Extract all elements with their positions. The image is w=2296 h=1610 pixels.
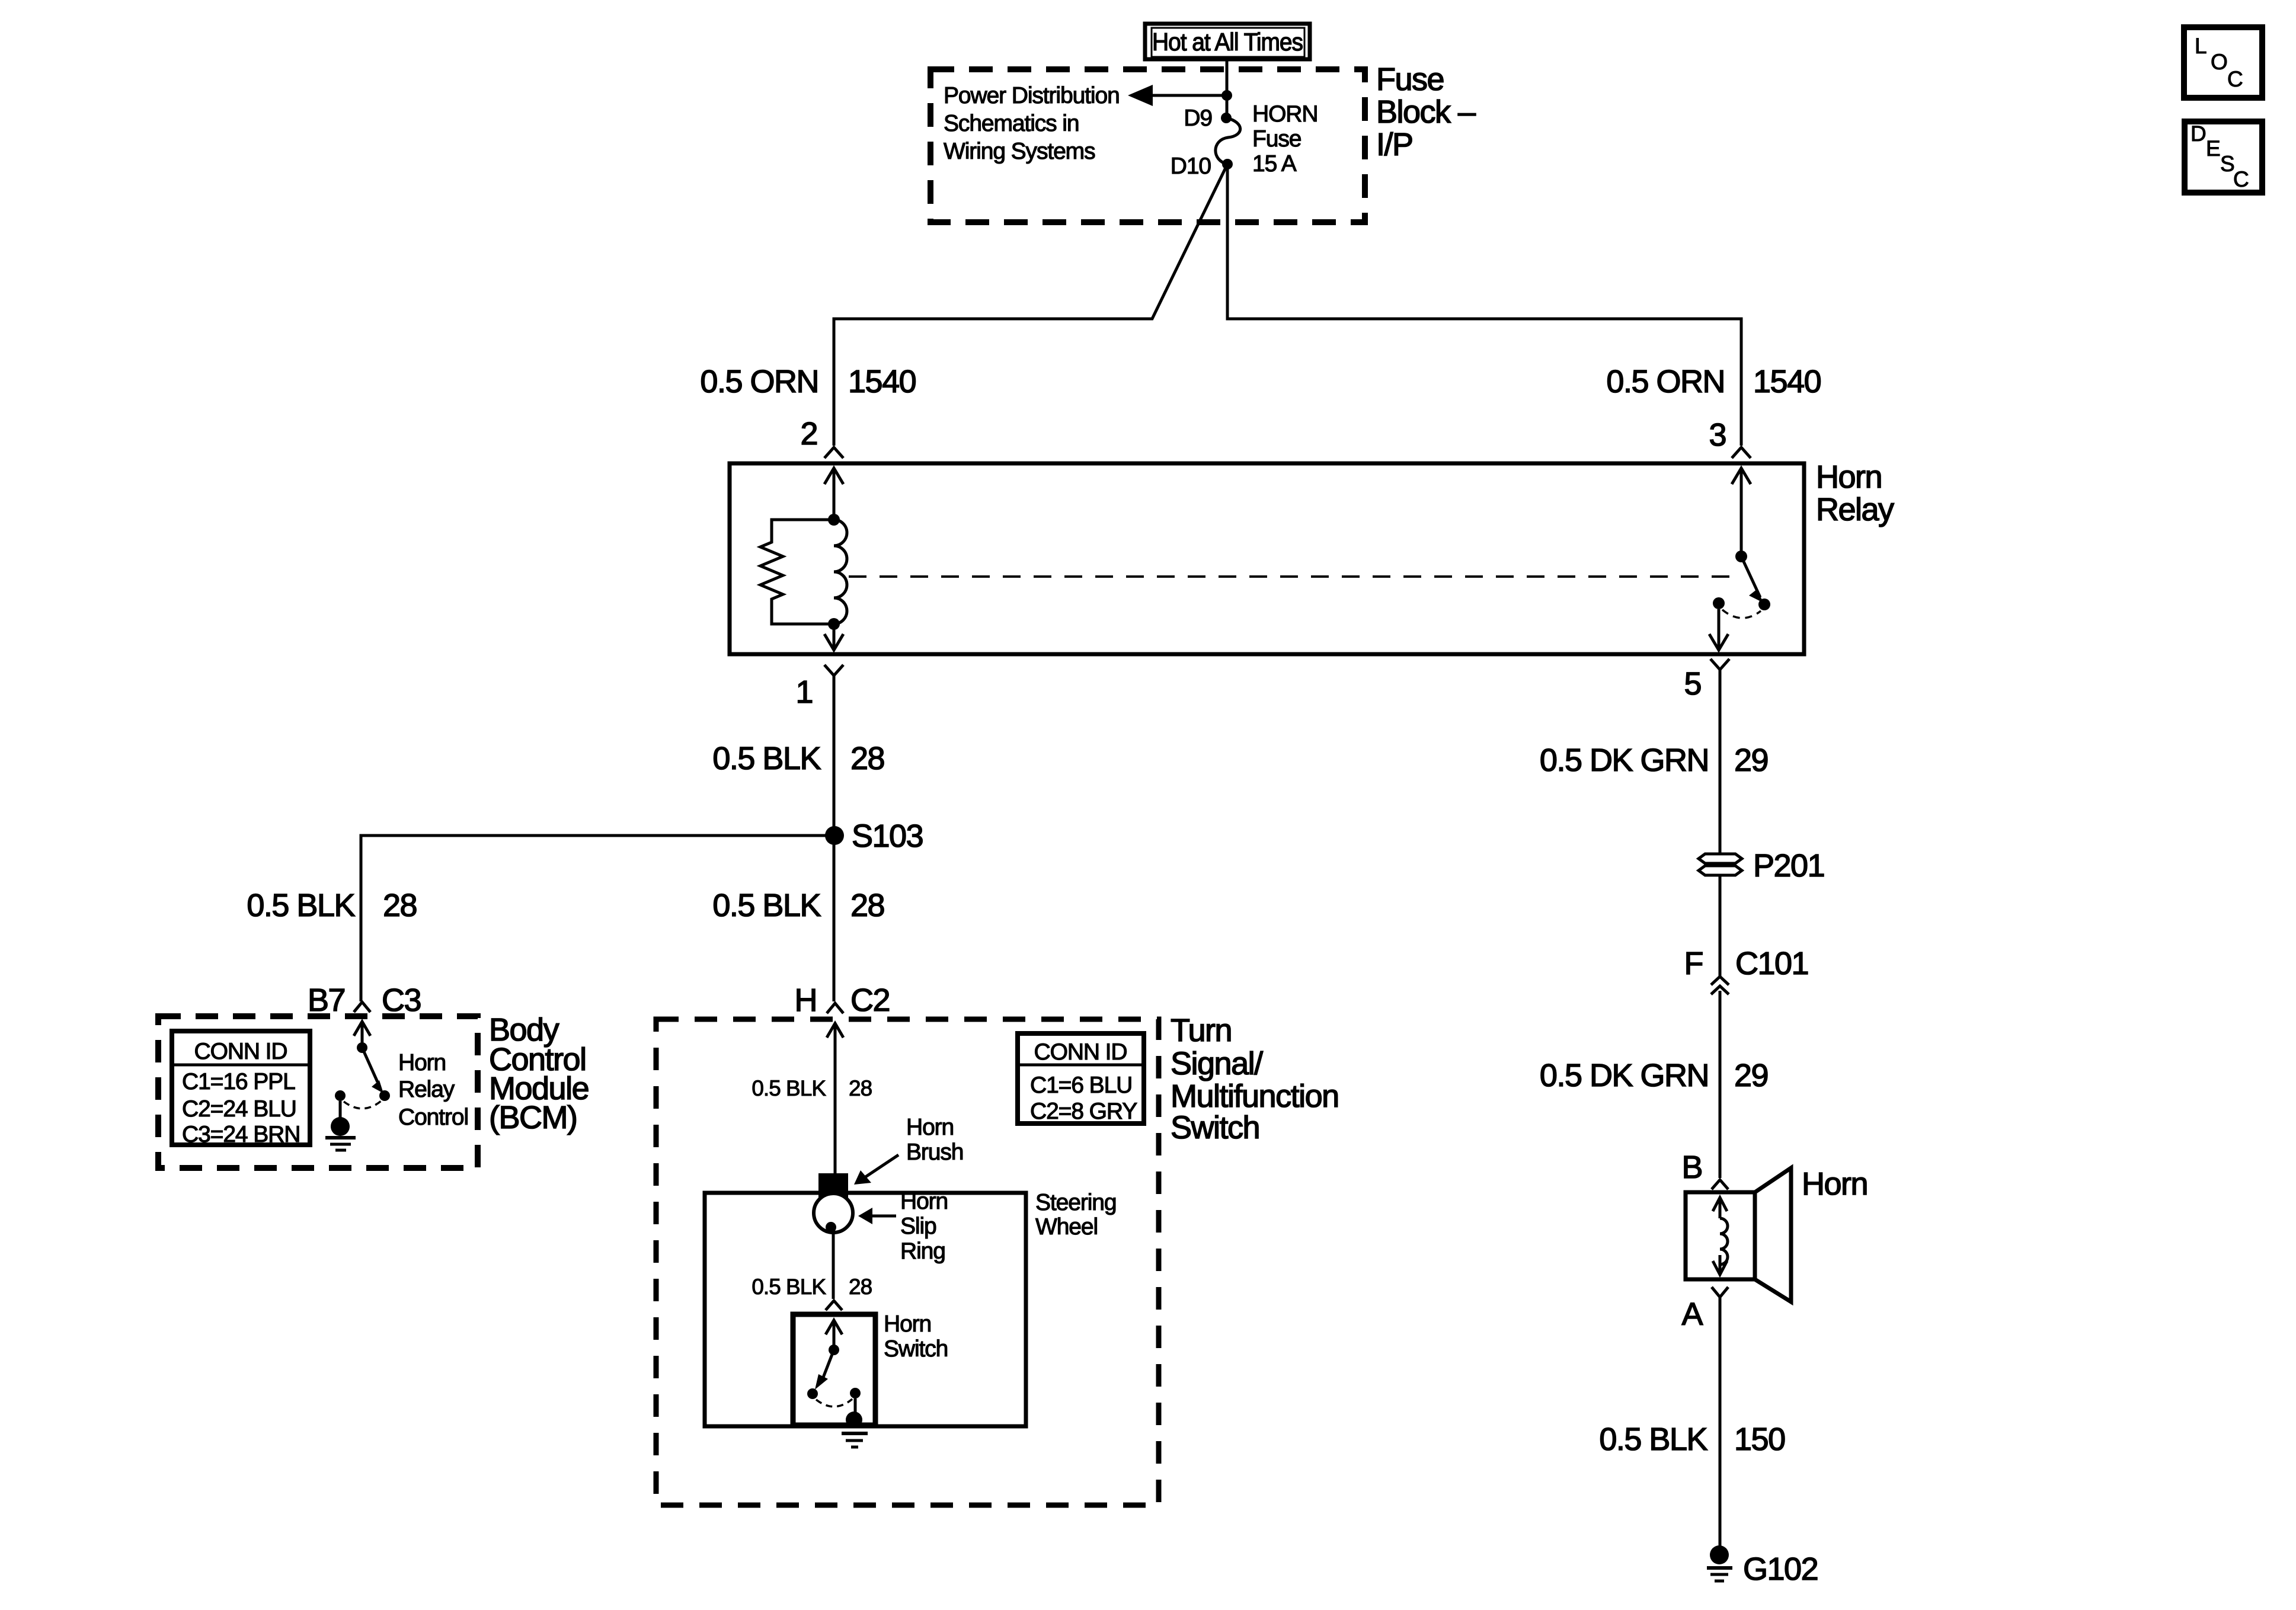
pin 2 terminal [824, 447, 843, 458]
wire hot box to D9 [1226, 59, 1229, 118]
relay pin 5 internal arrow [1709, 609, 1728, 650]
fuse element (HORN fuse) [1216, 118, 1240, 164]
svg-text:29: 29 [1734, 742, 1768, 778]
svg-text:Fuse: Fuse [1376, 62, 1444, 97]
relay switch dashed linkage arc [1722, 610, 1761, 618]
svg-text:Relay: Relay [398, 1077, 455, 1102]
0.5 BLK 28 label (upper, in switch) [752, 1076, 872, 1100]
wire pin 1 to H C2 [833, 676, 836, 1001]
wire P201 to C101 [1719, 875, 1722, 977]
svg-text:Ring: Ring [900, 1238, 945, 1264]
svg-text:D10: D10 [1171, 153, 1211, 179]
horn speaker flare [1755, 1168, 1791, 1302]
svg-text:1540: 1540 [1753, 364, 1821, 399]
horn switch entry terminal [826, 1301, 842, 1310]
svg-text:Switch: Switch [884, 1336, 948, 1362]
0.5 ORN 1540 label (left) [700, 364, 916, 399]
svg-text:S103: S103 [852, 818, 923, 854]
svg-text:0.5 BLK: 0.5 BLK [712, 741, 821, 776]
relay coil [834, 520, 847, 624]
0.5 BLK 28 label (lower, in switch) [752, 1275, 872, 1299]
pin 3 terminal [1732, 447, 1751, 458]
svg-text:Block –: Block – [1376, 94, 1476, 130]
BCM switch dashed arc [344, 1101, 381, 1109]
svg-text:Horn: Horn [906, 1115, 954, 1140]
slip ring pointer arrow [858, 1208, 896, 1224]
svg-text:B7: B7 [308, 982, 345, 1018]
Fuse Block I/P label [1376, 62, 1476, 162]
svg-text:28: 28 [383, 888, 417, 923]
svg-text:I/P: I/P [1376, 127, 1413, 162]
H terminal [827, 1003, 843, 1013]
svg-text:28: 28 [850, 888, 884, 923]
horn switch entry arrow [826, 1320, 842, 1350]
svg-text:28: 28 [849, 1076, 872, 1100]
relay pin 1 internal arrow [824, 624, 843, 650]
pin 1 terminal [824, 665, 843, 676]
ground G102 [1707, 1545, 1732, 1581]
svg-text:O: O [2211, 50, 2227, 74]
C101 in-line connector [1711, 977, 1729, 994]
svg-text:28: 28 [849, 1275, 872, 1299]
relay resistor [760, 520, 834, 624]
relay switch arm contact node [1758, 598, 1770, 610]
svg-text:HORN: HORN [1252, 101, 1318, 127]
svg-text:D: D [2191, 121, 2206, 146]
wire D10 to relay pin 2 [834, 164, 1227, 446]
svg-text:Switch: Switch [1171, 1110, 1259, 1145]
horn switch dashed arc [816, 1399, 852, 1407]
F C101 pin labels [1684, 946, 1809, 981]
svg-text:Slip: Slip [900, 1214, 936, 1239]
svg-text:0.5 DK GRN: 0.5 DK GRN [1540, 1058, 1709, 1093]
svg-text:Power Distribution: Power Distribution [944, 83, 1120, 108]
svg-text:0.5 ORN: 0.5 ORN [700, 364, 818, 399]
svg-text:15 A: 15 A [1252, 151, 1297, 177]
horn switch ground stem [854, 1398, 857, 1413]
svg-text:(BCM): (BCM) [489, 1100, 577, 1135]
Horn Brush label [906, 1115, 963, 1165]
svg-text:Signal/: Signal/ [1171, 1046, 1263, 1081]
svg-text:Horn: Horn [1802, 1166, 1868, 1202]
wire C101 to horn B [1719, 991, 1722, 1178]
0.5 BLK 28 label (branch) [247, 888, 417, 923]
svg-text:150: 150 [1734, 1422, 1785, 1457]
svg-text:Wiring Systems: Wiring Systems [944, 139, 1095, 164]
svg-text:C: C [2233, 167, 2249, 191]
Turn Signal Multifunction Switch label [1171, 1013, 1339, 1145]
H C2 pin labels [795, 982, 890, 1018]
relay switch fixed contact node [1713, 597, 1725, 609]
relay actuation dashed line [849, 575, 1731, 578]
svg-text:2: 2 [800, 416, 817, 452]
BCM switch fixed contact node [335, 1090, 346, 1101]
CONN ID table (BCM) [172, 1031, 310, 1147]
node: hot feed junction [1221, 90, 1232, 101]
wire D10 to relay pin 3 [1227, 164, 1741, 446]
splice S103 [825, 826, 844, 845]
horn switch ground [842, 1411, 868, 1447]
relay coil bottom node [828, 618, 840, 630]
DESC box [2185, 121, 2262, 193]
relay pin 3 internal arrow [1732, 468, 1751, 556]
svg-text:0.5 BLK: 0.5 BLK [752, 1076, 826, 1100]
svg-text:Wheel: Wheel [1035, 1214, 1098, 1240]
svg-text:P201: P201 [1753, 848, 1824, 884]
svg-text:Horn: Horn [900, 1189, 948, 1214]
Horn Relay Control label [398, 1050, 468, 1130]
svg-text:C3=24 BRN: C3=24 BRN [182, 1122, 300, 1147]
0.5 BLK 28 label (to H) [712, 888, 884, 923]
svg-text:G102: G102 [1743, 1551, 1818, 1587]
svg-text:C2=8 GRY: C2=8 GRY [1030, 1099, 1137, 1124]
svg-text:Hot at All Times: Hot at All Times [1152, 28, 1303, 56]
svg-text:Relay: Relay [1816, 492, 1894, 527]
steering wheel box [705, 1193, 1026, 1426]
svg-text:CONN ID: CONN ID [1034, 1039, 1127, 1065]
svg-text:B: B [1681, 1150, 1702, 1185]
wire pin 5 to P201 [1719, 670, 1722, 855]
svg-text:C2=24 BLU: C2=24 BLU [182, 1096, 296, 1122]
horn switch arm [815, 1350, 834, 1390]
svg-text:28: 28 [850, 741, 884, 776]
svg-text:Horn: Horn [884, 1311, 931, 1337]
svg-text:0.5 BLK: 0.5 BLK [1599, 1422, 1707, 1457]
Horn Switch label [884, 1311, 948, 1362]
svg-text:0.5 ORN: 0.5 ORN [1606, 364, 1725, 399]
relay switch pivot node [1735, 550, 1747, 562]
BCM switch entry arrow [354, 1022, 370, 1048]
horn brush pointer arrow [854, 1155, 898, 1185]
0.5 DK GRN 29 label (lower) [1540, 1058, 1768, 1093]
svg-text:0.5 DK GRN: 0.5 DK GRN [1540, 742, 1709, 778]
svg-text:C101: C101 [1735, 946, 1808, 981]
BCM ground [325, 1117, 356, 1150]
svg-text:C3: C3 [382, 982, 421, 1018]
svg-text:H: H [795, 982, 817, 1018]
wire S103 branch to B7 [361, 836, 834, 1001]
B terminal [1712, 1180, 1728, 1189]
svg-text:C1=6 BLU: C1=6 BLU [1030, 1073, 1132, 1098]
BCM switch arm contact node [379, 1090, 390, 1101]
svg-text:E: E [2206, 136, 2220, 161]
0.5 DK GRN 29 label (upper) [1540, 742, 1768, 778]
power distribution reference text [944, 83, 1120, 164]
A terminal [1712, 1287, 1728, 1297]
arrow to power distribution [1128, 85, 1227, 106]
wire horn A to G102 [1719, 1297, 1722, 1548]
Steering Wheel label [1035, 1190, 1116, 1240]
svg-text:Turn: Turn [1171, 1013, 1232, 1048]
svg-text:L: L [2195, 34, 2207, 58]
wire slip ring to horn switch [832, 1233, 835, 1299]
B7 C3 pin labels [308, 982, 421, 1018]
relay coil top node [828, 514, 840, 526]
Hot at All Times box [1145, 24, 1310, 59]
svg-text:3: 3 [1709, 417, 1726, 453]
svg-text:Control: Control [398, 1105, 468, 1130]
horn brush [818, 1173, 848, 1201]
svg-text:0.5 BLK: 0.5 BLK [247, 888, 355, 923]
svg-text:CONN ID: CONN ID [194, 1039, 287, 1064]
Horn Slip Ring label [900, 1189, 948, 1264]
horn switch box [793, 1314, 875, 1425]
BCM dashed box [158, 1016, 478, 1168]
0.5 BLK 28 label (pin1) [712, 741, 884, 776]
horn box [1686, 1192, 1755, 1279]
relay switch arm [1741, 556, 1763, 603]
CONN ID table (turn signal) [1018, 1033, 1144, 1124]
horn relay box [730, 463, 1804, 654]
svg-text:Horn: Horn [1816, 459, 1882, 495]
Body Control Module label [489, 1012, 589, 1135]
horn slip ring [814, 1193, 853, 1233]
Horn Relay label [1816, 459, 1894, 527]
node D9 [1221, 113, 1232, 123]
0.5 ORN 1540 label (right) [1606, 364, 1821, 399]
BCM switch common node [357, 1042, 367, 1053]
P201 grommet [1699, 854, 1742, 875]
horn switch ground contact node [850, 1388, 861, 1398]
pin 5 terminal [1710, 659, 1729, 670]
svg-text:Multifunction: Multifunction [1171, 1078, 1339, 1114]
svg-text:1540: 1540 [848, 364, 916, 399]
svg-text:S: S [2220, 152, 2234, 176]
svg-text:5: 5 [1684, 666, 1701, 702]
svg-text:C1=16 PPL: C1=16 PPL [182, 1069, 295, 1094]
BCM switch arm [362, 1048, 383, 1093]
svg-text:C: C [2227, 67, 2243, 91]
svg-text:Fuse: Fuse [1252, 126, 1301, 152]
HORN Fuse 15 A value label [1252, 101, 1318, 177]
turn box entry arrow and wire to brush [827, 1023, 843, 1174]
BCM ground stem [339, 1101, 342, 1118]
fuse block dashed box [930, 69, 1365, 222]
turn signal dashed box [656, 1019, 1159, 1505]
svg-text:D9: D9 [1184, 105, 1212, 131]
horn internal coil with arrows [1713, 1198, 1728, 1275]
svg-text:F: F [1684, 946, 1703, 981]
horn switch common node [829, 1345, 839, 1355]
node D10 [1222, 159, 1233, 169]
relay pin 2 internal arrow [824, 468, 843, 520]
svg-text:0.5 BLK: 0.5 BLK [712, 888, 821, 923]
B7 terminal [354, 1002, 370, 1012]
0.5 BLK 150 label [1599, 1422, 1785, 1457]
svg-text:C2: C2 [850, 982, 890, 1018]
horn switch arm contact node [807, 1388, 818, 1399]
svg-text:Brush: Brush [906, 1140, 963, 1165]
svg-text:Steering: Steering [1035, 1190, 1116, 1215]
svg-text:0.5 BLK: 0.5 BLK [752, 1275, 826, 1299]
svg-text:A: A [1681, 1297, 1703, 1332]
svg-text:1: 1 [795, 674, 813, 710]
svg-text:29: 29 [1734, 1058, 1768, 1093]
LOC box [2184, 27, 2262, 98]
svg-text:Horn: Horn [398, 1050, 446, 1076]
svg-text:Schematics in: Schematics in [944, 111, 1079, 136]
